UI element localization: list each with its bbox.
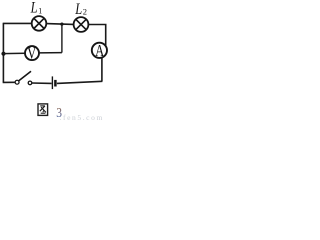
ammeter U-A [92, 43, 107, 58]
lamp L1 [32, 16, 47, 31]
wire node J stub down to voltmeter branch [61, 24, 63, 52]
label L2 [74, 0, 87, 18]
switch S [15, 71, 32, 84]
wire lamp L2 to top-right corner and down [89, 25, 106, 47]
wire battery to switch [32, 82, 52, 84]
wire voltmeter to stub [39, 52, 62, 54]
caption character tu (figure) [38, 104, 48, 116]
wire lamp L1 to node J [46, 23, 73, 26]
wire switch to bottom-left corner [3, 81, 15, 83]
node on left rail for voltmeter branch [1, 52, 5, 56]
svg-text:L: L [74, 0, 82, 18]
lamp L2 [74, 17, 89, 32]
svg-text:.fen5.com: .fen5.com [60, 113, 104, 122]
wire left rail to voltmeter [3, 52, 25, 54]
wire top-left segment to lamp L1 [3, 22, 32, 24]
voltmeter U-V [25, 46, 39, 60]
label L1 [30, 0, 42, 17]
wire bottom-right segment to battery [57, 81, 103, 83]
node J junction dot [60, 23, 63, 26]
svg-text:A: A [95, 42, 104, 60]
svg-text:V: V [27, 45, 36, 63]
svg-text:1: 1 [38, 6, 42, 15]
battery cell [52, 76, 55, 89]
wire ammeter down to bottom-right corner [101, 58, 103, 81]
wire left rail [2, 23, 4, 82]
svg-text:L: L [30, 0, 38, 17]
svg-text:2: 2 [83, 6, 87, 16]
